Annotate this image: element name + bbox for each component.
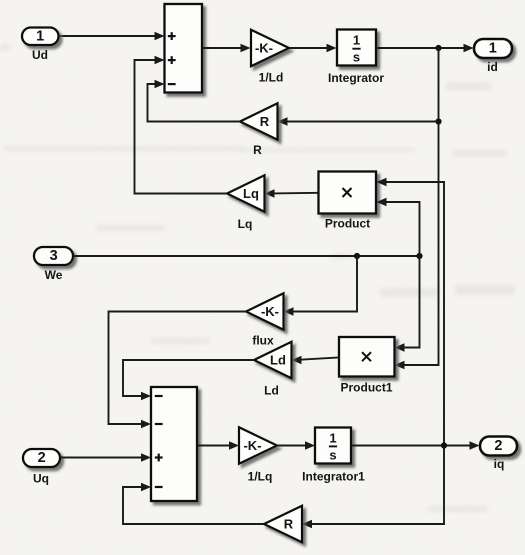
svg-text:R: R bbox=[284, 517, 294, 532]
gain flux bbox=[246, 293, 284, 347]
svg-text:Integrator: Integrator bbox=[328, 71, 384, 85]
output port 2 iq bbox=[480, 437, 517, 472]
svg-text:-K-: -K- bbox=[255, 41, 273, 56]
svg-text:-K-: -K- bbox=[261, 304, 279, 319]
product Product1 bbox=[339, 337, 395, 395]
integrator Integrator bbox=[328, 30, 384, 86]
svg-text:1: 1 bbox=[329, 431, 336, 446]
svg-text:Ld: Ld bbox=[264, 384, 279, 398]
input port 1 Ud bbox=[22, 28, 59, 63]
product Product bbox=[319, 172, 377, 231]
svg-text:iq: iq bbox=[494, 457, 505, 471]
wire Product1 to Ld bbox=[292, 356, 340, 365]
integrator Integrator1 bbox=[302, 428, 365, 484]
wire node to gain R bbox=[278, 117, 439, 126]
input port 3 We bbox=[34, 247, 73, 282]
output port 1 id bbox=[474, 39, 512, 74]
svg-text:Ud: Ud bbox=[32, 48, 48, 62]
wire Product to Lq bbox=[265, 189, 319, 198]
svg-text:1: 1 bbox=[36, 29, 44, 45]
svg-text:1/Lq: 1/Lq bbox=[248, 470, 273, 484]
wire Integrator1 to iq port bbox=[351, 441, 480, 450]
gain Ld bbox=[254, 342, 292, 398]
wire We to flux gain bbox=[284, 256, 358, 316]
svg-text:Ld: Ld bbox=[270, 353, 286, 368]
wire 1/Lq to Integrator1 bbox=[277, 441, 315, 450]
svg-text:R: R bbox=[260, 114, 270, 129]
svg-text:2: 2 bbox=[494, 438, 502, 454]
svg-text:Lq: Lq bbox=[238, 217, 253, 231]
wire We to Product in2 bbox=[377, 198, 420, 256]
svg-text:s: s bbox=[353, 50, 360, 65]
svg-text:Lq: Lq bbox=[243, 186, 259, 201]
wire Ld to Sum1 in1 bbox=[123, 360, 254, 400]
wire Ud to Sum in1 bbox=[59, 32, 165, 41]
gain Lq bbox=[227, 175, 265, 231]
svg-text:flux: flux bbox=[252, 334, 274, 348]
sum block Sum bbox=[165, 4, 203, 93]
wire We to Product1 in1 bbox=[395, 256, 420, 352]
wire Lq to Sum in2 bbox=[135, 56, 228, 194]
node id junction top bbox=[435, 45, 441, 51]
svg-text:2: 2 bbox=[38, 450, 46, 466]
node R branch bbox=[435, 118, 441, 124]
wire Sum to 1/Ld bbox=[202, 44, 251, 53]
gain R1 bottom bbox=[264, 506, 302, 542]
node iq junction bbox=[441, 442, 447, 448]
wire We bus bbox=[73, 255, 420, 257]
svg-text:1: 1 bbox=[489, 41, 497, 57]
wire R1 to Sum1 in4 bbox=[123, 483, 264, 524]
node We to products bbox=[416, 253, 422, 259]
svg-text:Uq: Uq bbox=[33, 472, 49, 486]
wire iq feedback to Product in1 bbox=[272, 178, 444, 529]
wire 1/Ld to Integrator bbox=[289, 44, 337, 53]
wire id feedback vertical to Product1 in2 bbox=[395, 48, 439, 369]
gain 1/Ld bbox=[251, 30, 289, 85]
input port 2 Uq bbox=[23, 449, 60, 486]
wire R to Sum in3 bbox=[148, 80, 241, 122]
svg-text:Product1: Product1 bbox=[340, 381, 392, 395]
wire Uq to Sum1 in3 bbox=[60, 453, 151, 462]
svg-text:id: id bbox=[487, 60, 498, 74]
svg-text:Product: Product bbox=[325, 217, 370, 231]
svg-text:Integrator1: Integrator1 bbox=[302, 470, 365, 484]
svg-text:We: We bbox=[45, 268, 63, 282]
svg-text:1: 1 bbox=[353, 33, 360, 48]
node We to flux bbox=[354, 253, 360, 259]
gain R top bbox=[240, 103, 278, 157]
svg-text:R: R bbox=[253, 143, 262, 157]
wire Sum1 to 1/Lq bbox=[197, 441, 239, 450]
wire Integrator to id port bbox=[376, 44, 474, 53]
svg-text:3: 3 bbox=[50, 248, 58, 264]
svg-text:1/Ld: 1/Ld bbox=[259, 70, 284, 84]
gain 1/Lq bbox=[239, 427, 277, 483]
wire flux to Sum1 in2 bbox=[109, 312, 247, 429]
svg-text:s: s bbox=[329, 447, 336, 462]
svg-text:-K-: -K- bbox=[243, 438, 261, 453]
sum block Sum1 bbox=[151, 387, 197, 501]
